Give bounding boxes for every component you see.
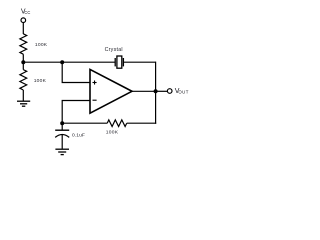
svg-text:100K: 100K: [34, 78, 47, 84]
wire op-amp output: [132, 90, 156, 92]
Vout terminal: [167, 89, 172, 94]
value label 0.1uF: [72, 133, 85, 139]
value label 100K (R3): [106, 129, 119, 135]
svg-text:0.1uF: 0.1uF: [72, 133, 85, 139]
ground (capacitor): [55, 149, 69, 154]
svg-text:100K: 100K: [106, 129, 119, 135]
wire node B to R3: [62, 122, 107, 124]
Vout label: [175, 88, 189, 95]
ground (left): [17, 101, 30, 106]
value label 100K (R2): [34, 78, 47, 84]
svg-text:CC: CC: [24, 10, 30, 15]
resistor R1 100K: [20, 34, 27, 54]
svg-text:OUT: OUT: [178, 89, 188, 94]
value label 100K (R1): [35, 42, 48, 48]
wire node C to crystal: [62, 61, 115, 63]
Crystal label: [105, 47, 123, 53]
resistor R2 100K: [20, 62, 27, 90]
Vcc label: [21, 8, 30, 15]
wire R1 to node A: [22, 54, 24, 62]
wire Vcc to R1: [22, 23, 24, 34]
node C junction: [60, 60, 64, 64]
right bus wire: [155, 62, 157, 124]
wire node A to node C: [23, 61, 62, 63]
wire - input: [62, 101, 89, 124]
node B junction: [60, 121, 64, 125]
wire to Vout terminal: [156, 90, 167, 92]
svg-text:Crystal: Crystal: [105, 47, 123, 53]
node A junction: [21, 60, 25, 64]
Vcc terminal: [21, 18, 26, 23]
resistor R3 100K (feedback): [107, 120, 127, 127]
wire crystal to right bus: [123, 61, 155, 63]
capacitor C1: [55, 123, 69, 149]
crystal Y1: [115, 56, 123, 68]
op-amp U1: [90, 69, 132, 113]
wire R2 to ground: [22, 90, 24, 101]
wire R3 to right bus: [127, 122, 157, 124]
wire node C down to + input: [62, 62, 89, 82]
svg-text:100K: 100K: [35, 42, 48, 48]
output junction: [154, 89, 158, 93]
